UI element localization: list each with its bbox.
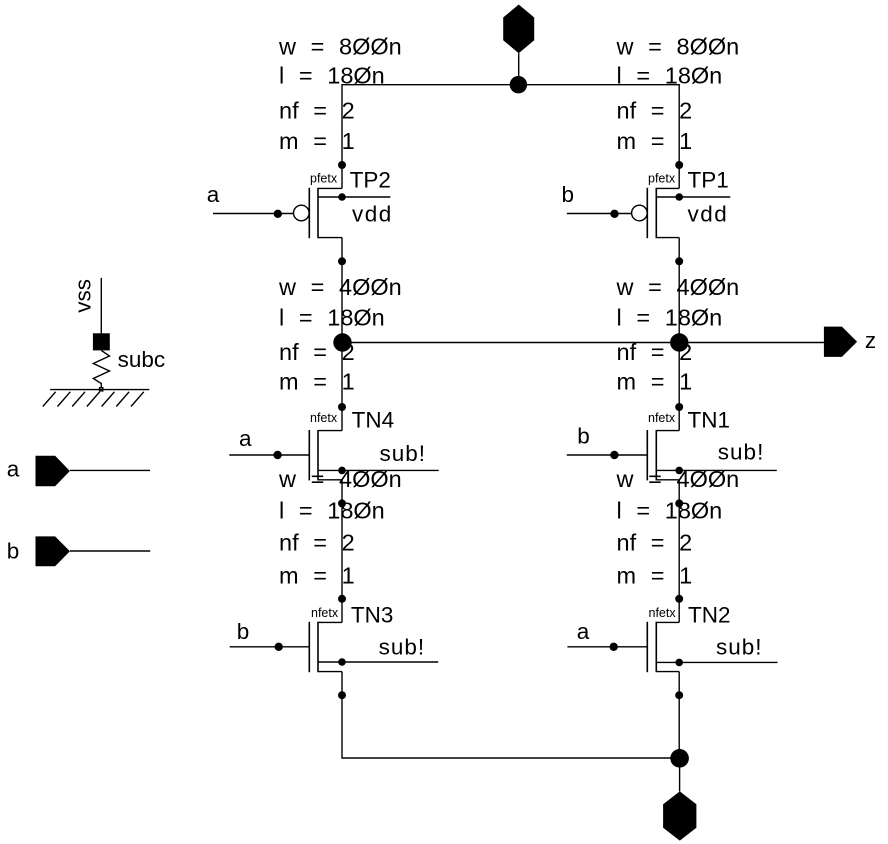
pin dots TP2 (338, 161, 346, 265)
wire vss (100, 278, 102, 333)
svg-text:nfetx: nfetx (649, 606, 677, 620)
svg-text:z: z (865, 328, 876, 353)
svg-text:pfetx: pfetx (648, 171, 676, 185)
svg-text:w = 4ØØn: w = 4ØØn (278, 466, 402, 492)
transistor TP1 (632, 188, 731, 238)
svg-text:l = 18Øn: l = 18Øn (617, 304, 723, 330)
junction gate TN4 (273, 451, 281, 459)
wire gate b TN3 (230, 646, 310, 648)
svg-text:l = 18Øn: l = 18Øn (617, 63, 723, 89)
junction output right (670, 333, 688, 351)
wire TN1 source to TN2 drain (678, 480, 680, 623)
svg-text:sub!: sub! (716, 634, 763, 659)
svg-text:b: b (7, 539, 20, 564)
svg-text:TN2: TN2 (688, 602, 731, 627)
junction gate TN3 (275, 643, 283, 651)
wire gate a TN2 (567, 646, 647, 648)
svg-text:b: b (577, 423, 590, 448)
wire gate a TN4 (229, 454, 309, 456)
svg-text:TN3: TN3 (351, 602, 394, 627)
svg-text:pfetx: pfetx (310, 171, 338, 185)
wire vdd rail (342, 85, 679, 189)
svg-text:nf = 2: nf = 2 (279, 97, 355, 123)
svg-text:TP1: TP1 (688, 168, 729, 193)
value label TN1 params (616, 274, 740, 394)
vdd supply symbol (503, 5, 534, 85)
wire TN4 source to TN3 drain (341, 480, 343, 623)
svg-text:TN4: TN4 (352, 407, 395, 432)
svg-text:nfetx: nfetx (310, 411, 338, 425)
svg-text:vdd: vdd (688, 202, 729, 227)
junction gate TP1 (610, 210, 618, 218)
svg-text:b: b (237, 619, 250, 644)
svg-text:m = 1: m = 1 (617, 368, 693, 394)
svg-text:l = 18Øn: l = 18Øn (279, 304, 385, 330)
wire gate b TP1 (567, 213, 632, 215)
pin dots TN3 (338, 595, 346, 699)
svg-text:nf = 2: nf = 2 (279, 339, 355, 365)
value label TP1 params (616, 33, 740, 154)
transistor TP2 (294, 188, 391, 238)
svg-text:a: a (7, 457, 20, 482)
svg-text:sub!: sub! (380, 441, 427, 466)
junction gate TN2 (610, 643, 618, 651)
svg-text:sub!: sub! (718, 440, 765, 465)
svg-text:l = 18Øn: l = 18Øn (617, 498, 723, 524)
value label TN3 params (278, 466, 402, 588)
value label TN4 params (278, 274, 402, 394)
svg-text:vss: vss (70, 279, 95, 313)
pin dots TP1 (675, 161, 683, 265)
svg-text:nf = 2: nf = 2 (279, 530, 355, 556)
wire pin a (70, 469, 150, 471)
transistor TN1 (647, 430, 777, 480)
substrate contact subc (93, 333, 110, 391)
svg-text:w = 4ØØn: w = 4ØØn (616, 466, 740, 492)
svg-text:nf = 2: nf = 2 (617, 530, 693, 556)
pin dots TN1 (675, 403, 683, 507)
wire gnd rail (342, 672, 679, 758)
svg-text:m = 1: m = 1 (279, 368, 355, 394)
wire gate a TP2 (213, 213, 294, 215)
wire left branch TP2 drain to TN4 drain (341, 238, 343, 431)
svg-text:w = 4ØØn: w = 4ØØn (616, 274, 740, 300)
svg-text:m = 1: m = 1 (279, 128, 355, 154)
junction gate TN1 (610, 451, 618, 459)
svg-text:m = 1: m = 1 (617, 563, 693, 589)
transistor TN2 (647, 622, 777, 672)
wire output net z (342, 342, 824, 344)
wire gate b TN1 (567, 454, 648, 456)
svg-text:nfetx: nfetx (648, 411, 676, 425)
svg-text:nf = 2: nf = 2 (617, 339, 693, 365)
svg-text:a: a (239, 426, 252, 451)
svg-text:nfetx: nfetx (311, 606, 339, 620)
transistor TN4 (309, 430, 438, 480)
svg-text:m = 1: m = 1 (617, 128, 693, 154)
pin z (824, 327, 857, 357)
svg-text:m = 1: m = 1 (279, 563, 355, 589)
transistor TN3 (309, 622, 438, 672)
junction vdd rail (510, 76, 527, 93)
value label TP2 params (278, 33, 402, 154)
pin a (36, 456, 70, 486)
wire pin b (70, 550, 150, 552)
svg-text:w = 4ØØn: w = 4ØØn (278, 274, 402, 300)
value label TN2 params (616, 466, 740, 588)
svg-text:TP2: TP2 (350, 168, 391, 193)
svg-text:nf = 2: nf = 2 (617, 97, 693, 123)
svg-text:a: a (207, 182, 220, 207)
svg-text:b: b (562, 182, 575, 207)
ground hatch symbol (43, 390, 150, 407)
junction gnd rail (670, 749, 689, 768)
pin dots TN2 (675, 595, 683, 699)
svg-text:w = 8ØØn: w = 8ØØn (278, 33, 402, 59)
svg-text:vdd: vdd (352, 202, 393, 227)
wire right branch TP1 drain to TN1 drain (678, 238, 680, 431)
svg-text:l = 18Øn: l = 18Øn (279, 498, 385, 524)
svg-text:TN1: TN1 (688, 407, 731, 432)
gnd supply symbol (663, 758, 696, 840)
svg-text:sub!: sub! (379, 634, 426, 659)
svg-text:subc: subc (118, 347, 166, 372)
svg-text:l = 18Øn: l = 18Øn (279, 63, 385, 89)
svg-text:a: a (577, 619, 590, 644)
junction gate TP2 (274, 210, 282, 218)
junction output left (333, 333, 351, 351)
pin b (36, 536, 70, 566)
pin dots TN4 (338, 403, 346, 507)
svg-text:w = 8ØØn: w = 8ØØn (616, 33, 740, 59)
